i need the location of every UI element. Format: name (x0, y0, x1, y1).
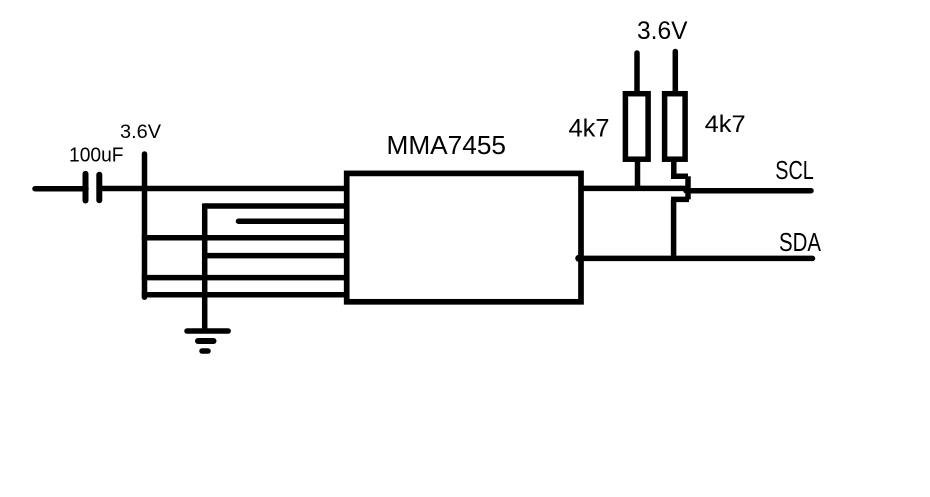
wire ground stem vertical (202, 203, 208, 331)
wire R2 jog segment D horizontal (671, 197, 689, 203)
wire w6 horizontal (142, 275, 350, 281)
svg-text:SCL: SCL (775, 157, 814, 185)
wire R2 jog segment C vertical crossing SCL (685, 176, 691, 199)
svg-text:4k7: 4k7 (705, 111, 746, 138)
wire R1 top lead (634, 53, 640, 97)
wire SCL left segment (581, 186, 689, 192)
wire w4 horizontal (142, 235, 350, 241)
svg-text:4k7: 4k7 (569, 115, 610, 143)
svg-text:SDA: SDA (779, 229, 821, 257)
svg-text:3.6V: 3.6V (120, 122, 161, 143)
svg-text:100uF: 100uF (69, 145, 124, 167)
wire R2 jog segment E vertical to SDA (671, 199, 677, 258)
resistor R2 4k7 body (665, 94, 686, 160)
node SDA junction dot (575, 255, 582, 262)
svg-text:MMA7455: MMA7455 (387, 132, 507, 160)
wire input left (35, 186, 86, 192)
wire w3 stub (239, 218, 351, 224)
capacitor C1 (86, 174, 100, 201)
wire R2 top lead (673, 52, 679, 98)
wire 3.6V rail vertical (142, 154, 148, 297)
wire R2 jog segment A vertical (671, 159, 677, 179)
ground (187, 331, 228, 351)
IC U1 MMA7455 body (347, 173, 581, 301)
wire w2 horizontal (205, 203, 350, 209)
wire SCL right segment (686, 188, 811, 194)
wire R1 bottom lead (635, 159, 641, 192)
wire R2 jog segment B horizontal (671, 174, 688, 180)
wire w5 horizontal (205, 253, 350, 259)
svg-text:3.6V: 3.6V (637, 17, 688, 45)
wire w1 VDD to IC (99, 186, 350, 192)
wire w7 horizontal (142, 292, 350, 298)
resistor R1 4k7 body (625, 94, 648, 160)
wire SDA (579, 256, 813, 262)
